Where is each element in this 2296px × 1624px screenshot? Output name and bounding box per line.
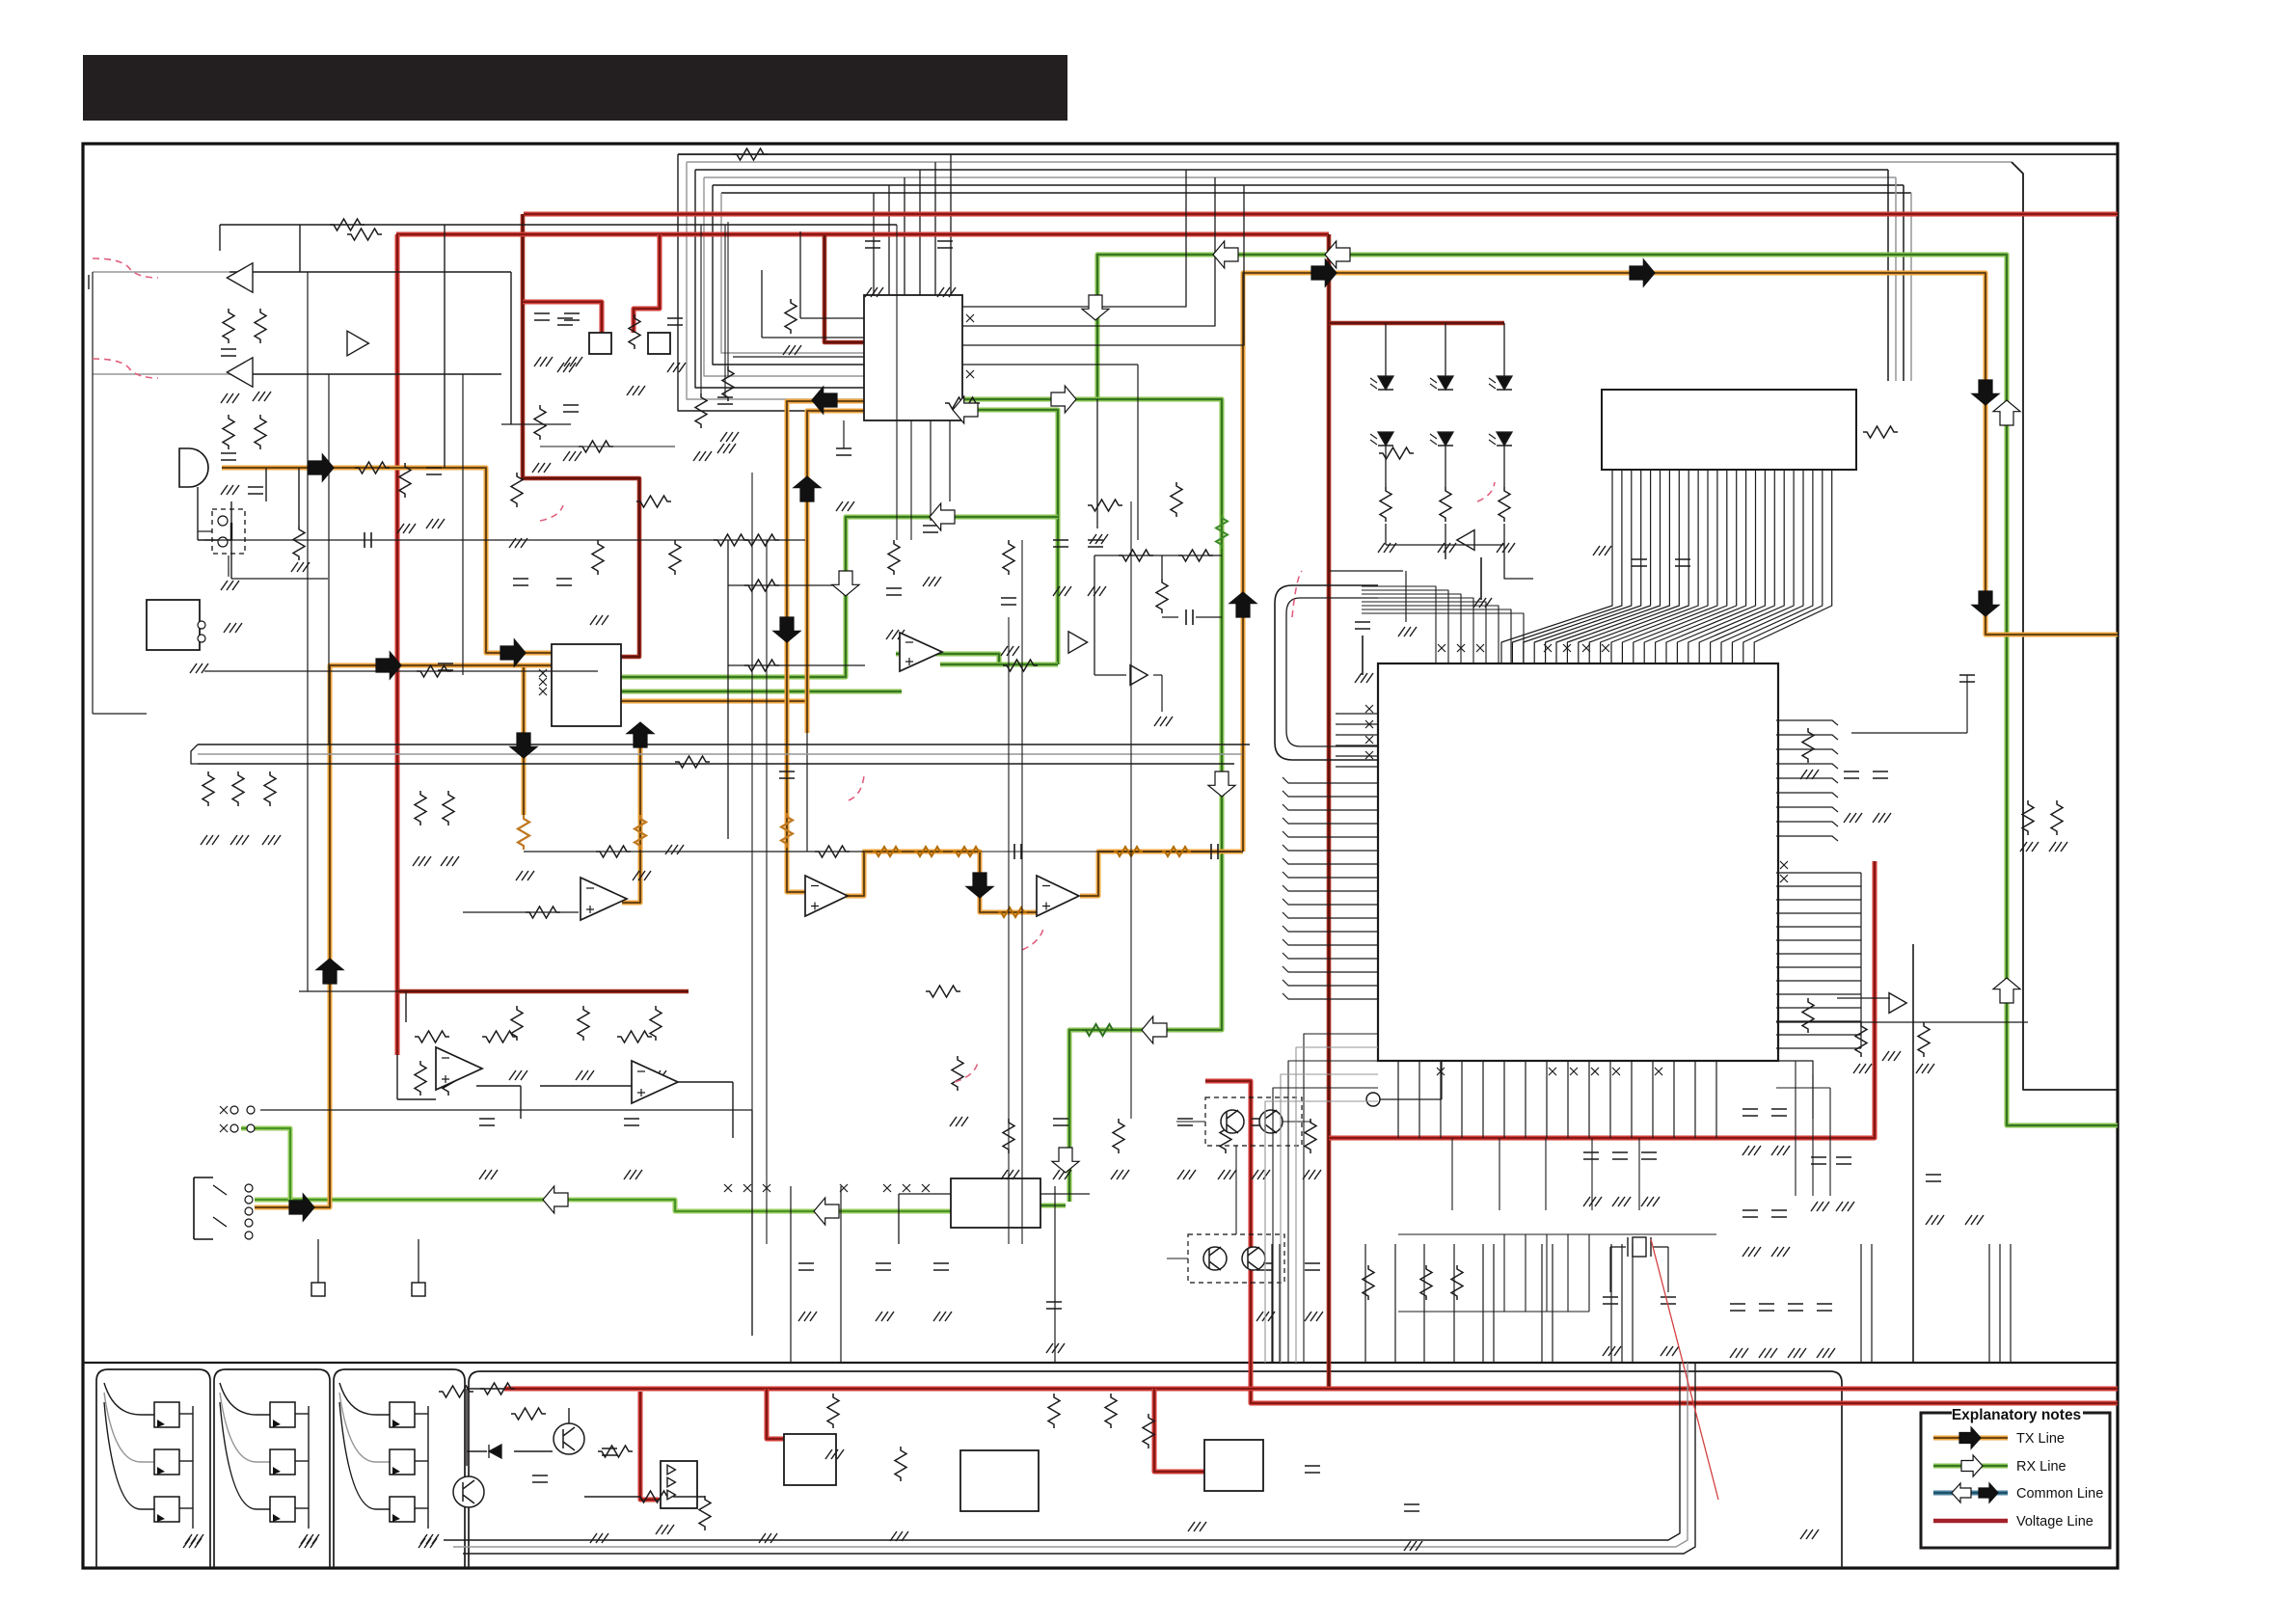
svg-text:Voltage Line: Voltage Line <box>2016 1514 2093 1529</box>
svg-text:TX Line: TX Line <box>2016 1431 2065 1447</box>
svg-text:RX Line: RX Line <box>2016 1459 2066 1475</box>
svg-text:Common Line: Common Line <box>2016 1486 2103 1502</box>
svg-text:Explanatory notes: Explanatory notes <box>1952 1407 2081 1423</box>
